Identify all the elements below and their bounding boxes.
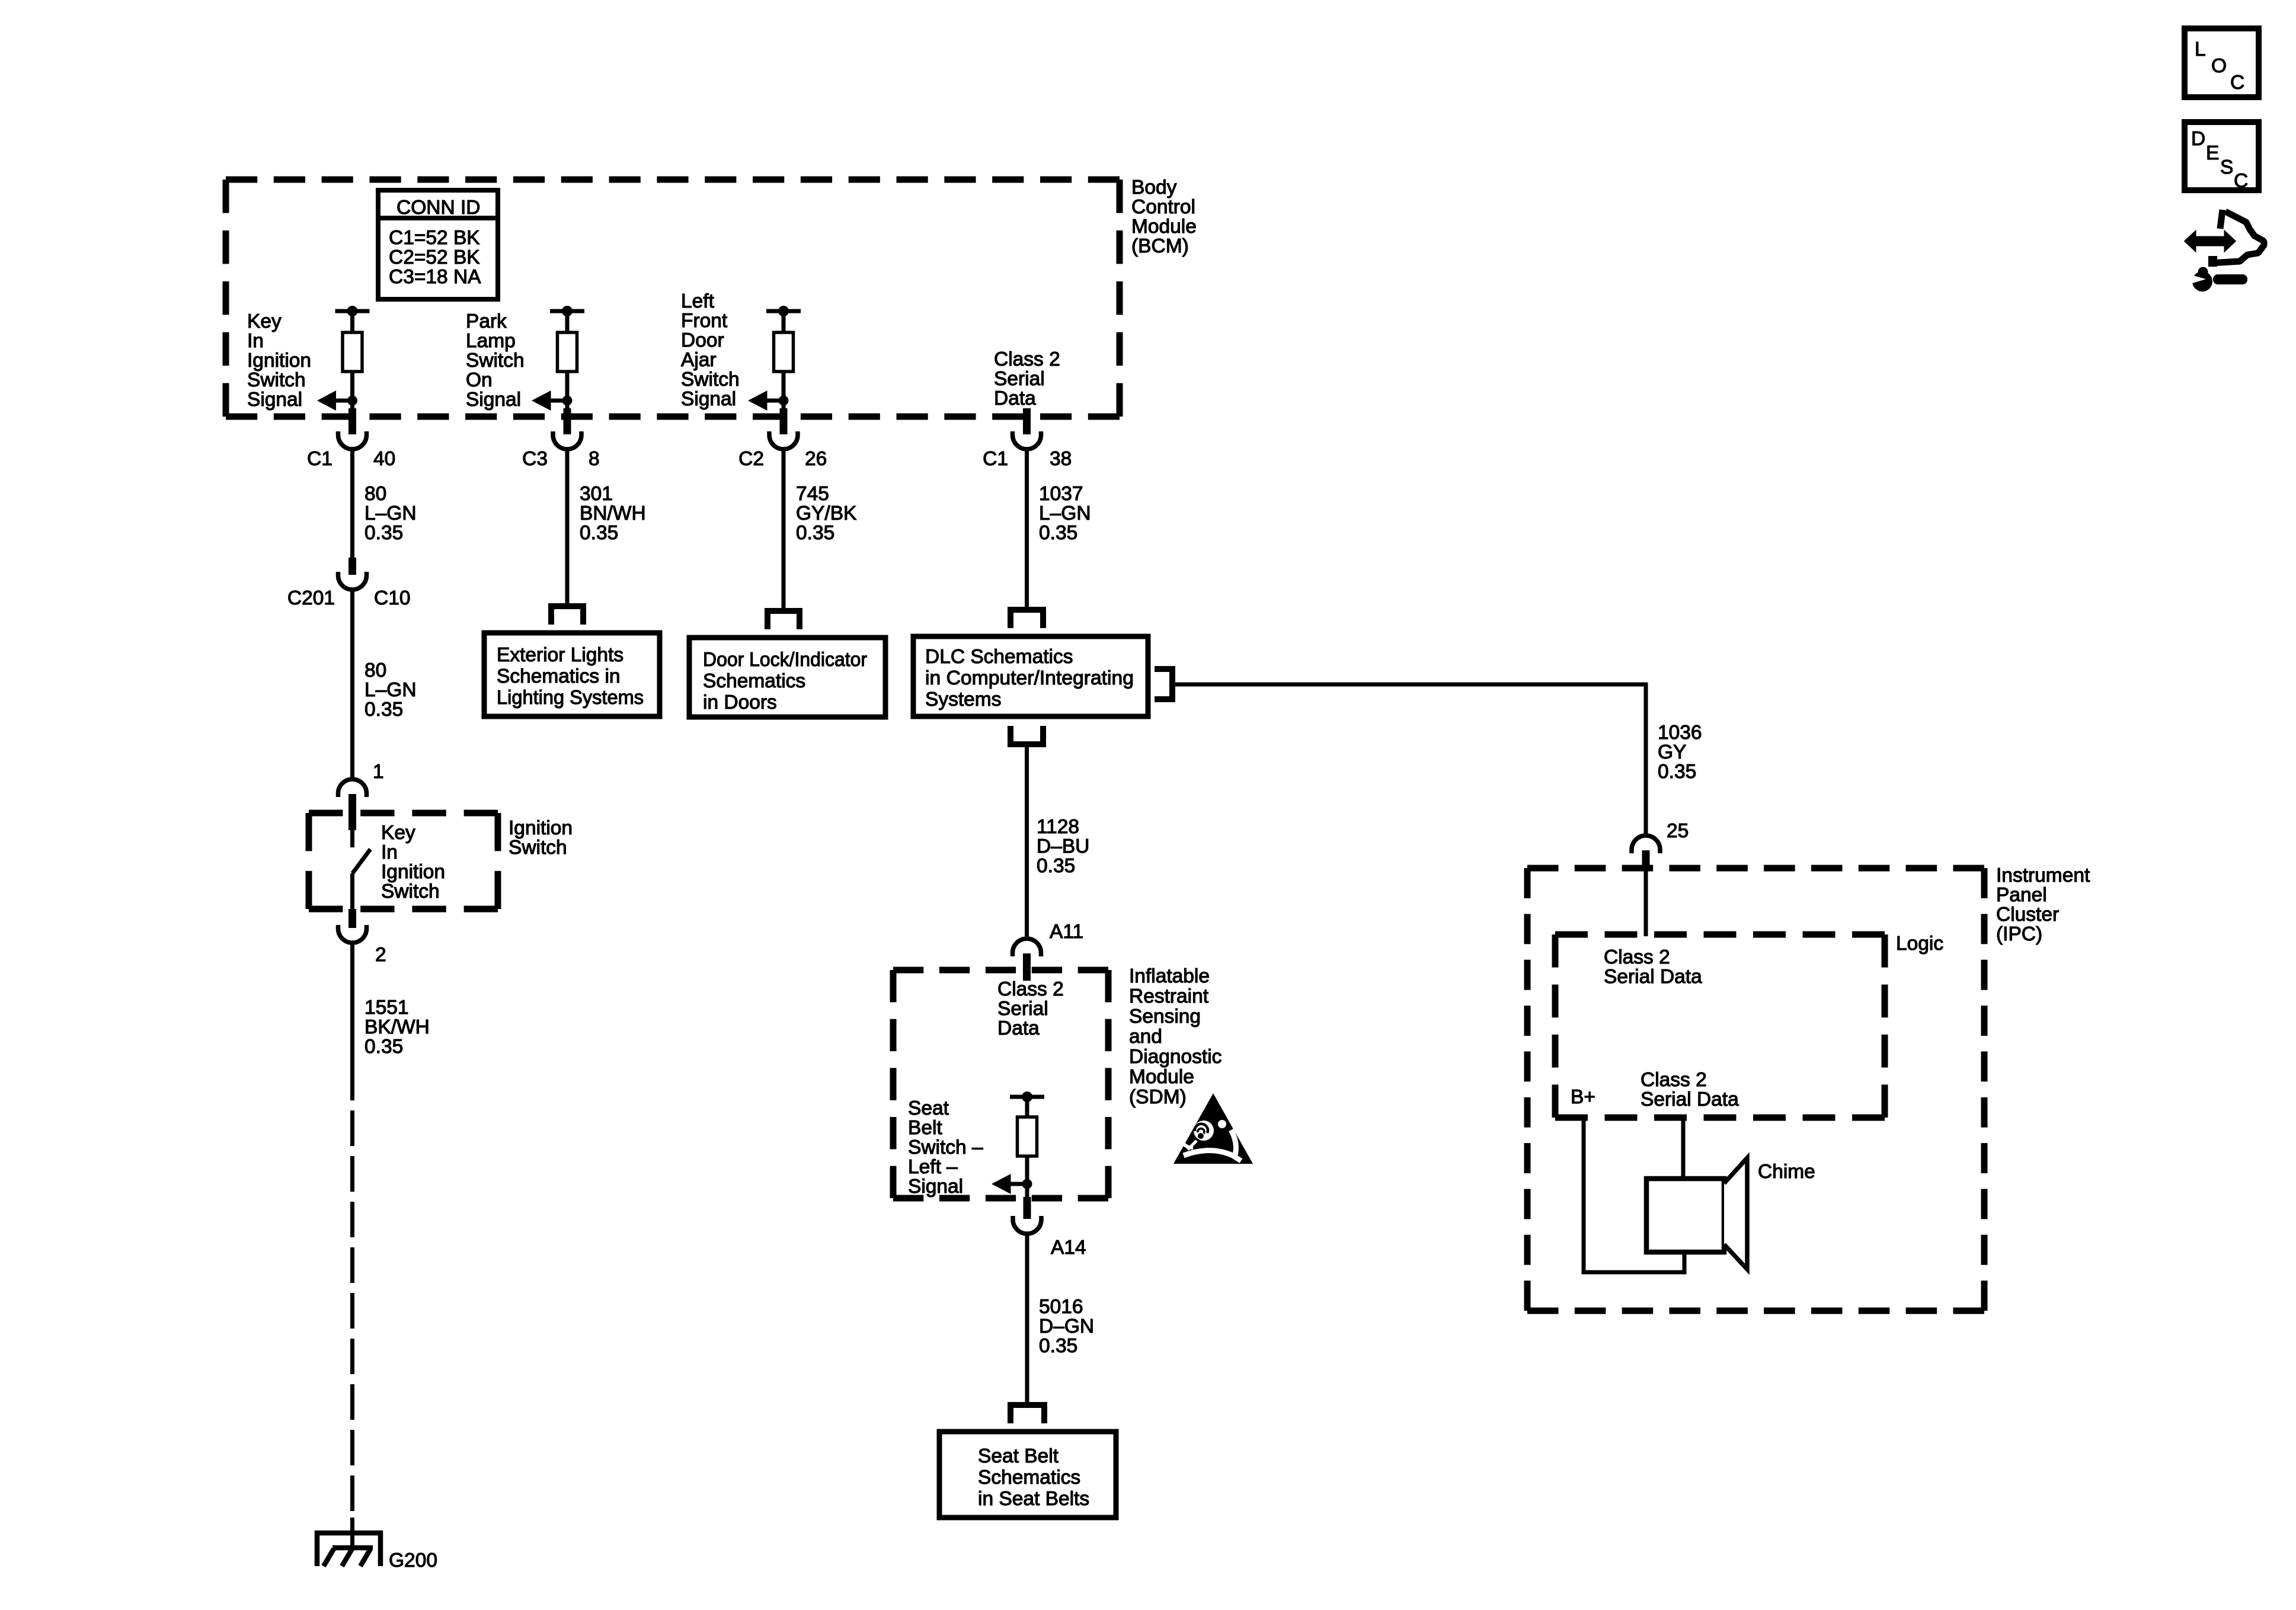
svg-text:Switch –: Switch – xyxy=(908,1137,983,1158)
svg-text:Schematics: Schematics xyxy=(703,670,805,692)
svg-text:Switch: Switch xyxy=(681,369,740,391)
svg-text:CONN ID: CONN ID xyxy=(396,197,480,219)
svg-text:in Doors: in Doors xyxy=(703,692,777,713)
svg-text:(BCM): (BCM) xyxy=(1131,235,1189,257)
svg-text:26: 26 xyxy=(805,448,827,470)
wire C2-26 to Door Lock bracket xyxy=(782,449,786,611)
Seat Belt Switch - Left - Signal label xyxy=(908,1097,983,1198)
svg-text:80: 80 xyxy=(364,483,386,505)
connector pin C3 8 xyxy=(522,408,599,470)
svg-text:Signal: Signal xyxy=(908,1176,963,1198)
chime speaker horn xyxy=(1724,1158,1747,1269)
resistor Key In Ignition Switch Signal xyxy=(335,306,370,409)
wire DLC to IPC (horizontal + down) xyxy=(1175,684,1646,837)
svg-text:745: 745 xyxy=(796,483,829,505)
svg-text:Restraint: Restraint xyxy=(1129,985,1209,1007)
svg-text:1037: 1037 xyxy=(1039,483,1083,505)
svg-text:Diagnostic: Diagnostic xyxy=(1129,1046,1221,1068)
svg-text:8: 8 xyxy=(589,448,600,470)
svg-text:Sensing: Sensing xyxy=(1129,1006,1201,1028)
svg-text:D–GN: D–GN xyxy=(1039,1315,1094,1337)
half connector bracket (DLC bottom) xyxy=(1011,726,1043,744)
BCM module dashed box xyxy=(226,180,1120,417)
Ignition Switch dashed box xyxy=(309,813,498,909)
wire B+ rail xyxy=(1584,1118,1684,1272)
svg-text:E: E xyxy=(2206,142,2219,164)
wire C1-38 to DLC bracket xyxy=(1025,449,1029,610)
svg-text:Serial: Serial xyxy=(994,368,1045,390)
signal arrow Park Lamp xyxy=(532,391,573,411)
CONN ID table xyxy=(378,190,498,299)
svg-text:In: In xyxy=(381,841,398,863)
half connector bracket (Seat Belt) xyxy=(1011,1405,1044,1423)
svg-text:Class 2: Class 2 xyxy=(994,348,1060,370)
svg-text:Key: Key xyxy=(381,822,415,844)
svg-text:5016: 5016 xyxy=(1039,1296,1083,1318)
svg-text:Ignition: Ignition xyxy=(247,350,311,372)
svg-text:0.35: 0.35 xyxy=(796,522,834,544)
switch Key In Ignition (blade) xyxy=(353,830,371,909)
half connector bracket (Exterior Lights) xyxy=(551,606,583,625)
svg-text:0.35: 0.35 xyxy=(364,1036,403,1058)
svg-text:(SDM): (SDM) xyxy=(1129,1086,1187,1108)
svg-text:C2: C2 xyxy=(738,448,764,470)
svg-text:Lighting Systems: Lighting Systems xyxy=(497,687,644,709)
svg-text:Module: Module xyxy=(1131,216,1197,238)
svg-text:Belt: Belt xyxy=(908,1117,942,1139)
ground G200 xyxy=(317,1518,380,1566)
svg-text:Serial Data: Serial Data xyxy=(1641,1089,1739,1110)
svg-text:A11: A11 xyxy=(1050,921,1083,943)
wire label 80 L-GN 0.35 (upper) xyxy=(364,483,417,544)
svg-text:Signal: Signal xyxy=(466,389,521,411)
svg-text:Body: Body xyxy=(1131,177,1177,199)
svg-text:0.35: 0.35 xyxy=(1658,761,1696,783)
svg-text:L–GN: L–GN xyxy=(1039,502,1091,524)
svg-text:BK/WH: BK/WH xyxy=(364,1016,430,1038)
svg-text:0.35: 0.35 xyxy=(1039,1335,1077,1357)
svg-text:L–GN: L–GN xyxy=(364,679,417,701)
svg-text:B+: B+ xyxy=(1571,1086,1595,1108)
svg-text:O: O xyxy=(2211,55,2227,77)
connector pin 1 (ignition switch) xyxy=(338,761,384,830)
svg-text:C3: C3 xyxy=(522,448,548,470)
connector pin 25 (IPC) xyxy=(1632,836,1660,870)
wire label 1037 L-GN 0.35 xyxy=(1039,483,1091,544)
svg-text:On: On xyxy=(466,369,493,391)
svg-text:Class 2: Class 2 xyxy=(1604,946,1670,968)
svg-text:Seat Belt: Seat Belt xyxy=(978,1445,1059,1467)
svg-text:Serial Data: Serial Data xyxy=(1604,966,1702,988)
svg-text:1: 1 xyxy=(373,761,384,783)
connector pin C1 40 xyxy=(307,408,395,470)
svg-text:Front: Front xyxy=(681,310,728,332)
svg-text:(IPC): (IPC) xyxy=(1996,923,2042,945)
svg-text:Exterior Lights: Exterior Lights xyxy=(497,644,623,666)
svg-text:Signal: Signal xyxy=(681,388,736,410)
wire label 1036 GY 0.35 xyxy=(1658,722,1702,783)
svg-text:40: 40 xyxy=(373,448,395,470)
svg-text:In: In xyxy=(247,330,264,352)
chime speaker box xyxy=(1646,1179,1724,1252)
svg-text:in Computer/Integrating: in Computer/Integrating xyxy=(925,667,1134,689)
svg-text:C10: C10 xyxy=(374,587,410,609)
half connector bracket (Door Lock) xyxy=(768,611,800,629)
svg-text:Switch: Switch xyxy=(381,881,440,902)
svg-text:Module: Module xyxy=(1129,1066,1194,1088)
wire DLC bottom to A11 xyxy=(1025,747,1029,940)
svg-text:25: 25 xyxy=(1667,820,1689,842)
Key In Ignition Switch Signal label xyxy=(247,311,311,411)
svg-text:C2=52 BK: C2=52 BK xyxy=(389,247,480,268)
svg-text:Class 2: Class 2 xyxy=(1641,1069,1707,1091)
svg-text:Key: Key xyxy=(247,311,282,332)
connector pin 2 (ignition switch) xyxy=(338,909,386,966)
svg-text:Logic: Logic xyxy=(1896,933,1943,955)
svg-text:A14: A14 xyxy=(1051,1237,1086,1259)
svg-text:GY: GY xyxy=(1658,741,1686,763)
Key In Ignition Switch label (inside box) xyxy=(381,822,445,902)
svg-text:Systems: Systems xyxy=(925,689,1001,710)
wire label 301 BN/WH 0.35 xyxy=(580,483,646,544)
Park Lamp Switch On Signal label xyxy=(466,311,525,411)
svg-text:301: 301 xyxy=(580,483,613,505)
svg-text:38: 38 xyxy=(1050,448,1072,470)
wire C10 to ignition switch pin 1 xyxy=(350,589,354,780)
Class 2 Serial Data label (SDM) xyxy=(997,978,1064,1039)
svg-text:Lamp: Lamp xyxy=(466,330,516,352)
signal arrow Left Front Door Ajar xyxy=(748,391,789,411)
half connector bracket (DLC right side) xyxy=(1155,669,1172,699)
svg-text:Panel: Panel xyxy=(1996,884,2047,906)
svg-text:C1: C1 xyxy=(983,448,1008,470)
wire label 745 GY/BK 0.35 xyxy=(796,483,856,544)
svg-text:C: C xyxy=(2234,170,2248,192)
wire label 1551 BK/WH 0.35 xyxy=(364,997,430,1058)
svg-text:1128: 1128 xyxy=(1037,816,1079,838)
svg-text:C: C xyxy=(2230,72,2244,94)
Left Front Door Ajar Switch Signal label xyxy=(681,290,740,410)
svg-text:Ajar: Ajar xyxy=(681,349,717,371)
svg-text:Instrument: Instrument xyxy=(1996,865,2090,886)
svg-text:Left –: Left – xyxy=(908,1156,958,1178)
Class 2 Serial Data label (Logic lower) xyxy=(1641,1069,1739,1110)
dashed wire to ground xyxy=(350,1100,354,1532)
svg-text:2: 2 xyxy=(375,944,386,966)
svg-text:C1: C1 xyxy=(307,448,332,470)
svg-text:BN/WH: BN/WH xyxy=(580,502,646,524)
svg-text:Class 2: Class 2 xyxy=(997,978,1064,1000)
SDM label (Inflatable Restraint Sensing and Diagnostic Module) xyxy=(1129,965,1221,1108)
svg-text:Schematics: Schematics xyxy=(978,1467,1080,1489)
wire C1-40 to C201 xyxy=(350,449,354,559)
svg-text:Door: Door xyxy=(681,329,724,351)
airbag warning triangle icon xyxy=(1173,1093,1253,1164)
connector pin A14 xyxy=(1013,1197,1086,1259)
svg-text:Signal: Signal xyxy=(247,389,302,411)
connector pin C1 38 xyxy=(983,408,1072,470)
svg-text:Data: Data xyxy=(997,1017,1040,1039)
wire label 5016 D-GN 0.35 xyxy=(1039,1296,1094,1357)
svg-text:Schematics in: Schematics in xyxy=(497,665,621,687)
resistor Left Front Door Ajar Switch Signal xyxy=(766,306,801,409)
wire pin 25 to Logic box xyxy=(1644,870,1648,936)
svg-text:in Seat Belts: in Seat Belts xyxy=(978,1488,1089,1510)
svg-text:Switch: Switch xyxy=(466,350,525,372)
Door Lock schematic box xyxy=(689,638,885,717)
signal arrow Seat Belt Switch xyxy=(992,1174,1032,1194)
connector pin C2 26 xyxy=(738,408,827,470)
svg-text:80: 80 xyxy=(364,660,386,681)
wire label 1128 D-BU 0.35 xyxy=(1037,816,1089,877)
svg-text:Inflatable: Inflatable xyxy=(1129,965,1210,987)
svg-text:1036: 1036 xyxy=(1658,722,1702,744)
service adjust icon (double arrow, outline, wrench) xyxy=(2185,210,2264,292)
wire A14 to Seat Belt bracket xyxy=(1025,1233,1029,1403)
Ignition Switch label xyxy=(509,817,573,859)
svg-text:Cluster: Cluster xyxy=(1996,904,2059,926)
svg-text:C201: C201 xyxy=(287,587,335,609)
svg-text:G200: G200 xyxy=(389,1550,437,1571)
signal arrow Key In Ignition xyxy=(317,391,357,411)
Exterior Lights schematic box xyxy=(484,633,660,716)
svg-text:L–GN: L–GN xyxy=(364,502,417,524)
IPC label (Instrument Panel Cluster) xyxy=(1996,865,2090,945)
Class 2 Serial Data label (BCM) xyxy=(994,348,1060,409)
svg-text:0.35: 0.35 xyxy=(364,522,403,544)
svg-text:DLC Schematics: DLC Schematics xyxy=(925,646,1073,668)
svg-text:Control: Control xyxy=(1131,196,1195,218)
resistor Park Lamp Switch On Signal xyxy=(550,306,584,409)
svg-text:L: L xyxy=(2195,39,2206,60)
Class 2 Serial Data label (Logic upper) xyxy=(1604,946,1702,988)
wire pin 2 down xyxy=(350,942,354,1100)
svg-text:and: and xyxy=(1129,1026,1162,1048)
svg-text:S: S xyxy=(2220,156,2233,178)
svg-text:Chime: Chime xyxy=(1758,1161,1815,1183)
svg-text:1551: 1551 xyxy=(364,997,409,1019)
svg-text:Data: Data xyxy=(994,388,1036,409)
wire Logic to chime xyxy=(1681,1118,1686,1180)
svg-text:Park: Park xyxy=(466,311,507,332)
svg-text:Serial: Serial xyxy=(997,998,1048,1020)
svg-text:Seat: Seat xyxy=(908,1097,949,1119)
svg-text:Switch: Switch xyxy=(509,837,567,859)
svg-text:GY/BK: GY/BK xyxy=(796,502,856,524)
resistor Seat Belt Switch (SDM) xyxy=(1010,1092,1044,1198)
half connector bracket (DLC top) xyxy=(1011,610,1043,628)
LOC icon box xyxy=(2185,28,2259,97)
connector pin A11 xyxy=(1013,921,1084,981)
svg-text:Ignition: Ignition xyxy=(509,817,573,839)
svg-text:Left: Left xyxy=(681,290,715,312)
DESC icon box xyxy=(2185,122,2259,192)
BCM label xyxy=(1131,177,1197,257)
IPC module dashed box xyxy=(1527,868,1984,1311)
svg-text:Switch: Switch xyxy=(247,369,306,391)
Logic dashed box xyxy=(1555,934,1885,1118)
svg-text:D–BU: D–BU xyxy=(1037,836,1089,857)
Seat Belt schematic box xyxy=(939,1432,1116,1518)
svg-text:Ignition: Ignition xyxy=(381,861,445,883)
svg-text:D: D xyxy=(2191,128,2205,150)
svg-text:C3=18 NA: C3=18 NA xyxy=(389,266,481,288)
DLC schematic box xyxy=(913,636,1148,716)
svg-text:0.35: 0.35 xyxy=(580,522,618,544)
svg-text:0.35: 0.35 xyxy=(1037,855,1075,877)
svg-text:0.35: 0.35 xyxy=(364,699,403,721)
svg-text:0.35: 0.35 xyxy=(1039,522,1077,544)
svg-text:C1=52 BK: C1=52 BK xyxy=(389,227,480,249)
wire C3-8 to Exterior Lights bracket xyxy=(565,449,570,606)
SDM module dashed box xyxy=(893,970,1108,1198)
wire label 80 L-GN 0.35 (lower) xyxy=(364,660,417,721)
svg-text:Door Lock/Indicator: Door Lock/Indicator xyxy=(703,649,867,671)
connector C201 C10 xyxy=(287,558,411,609)
